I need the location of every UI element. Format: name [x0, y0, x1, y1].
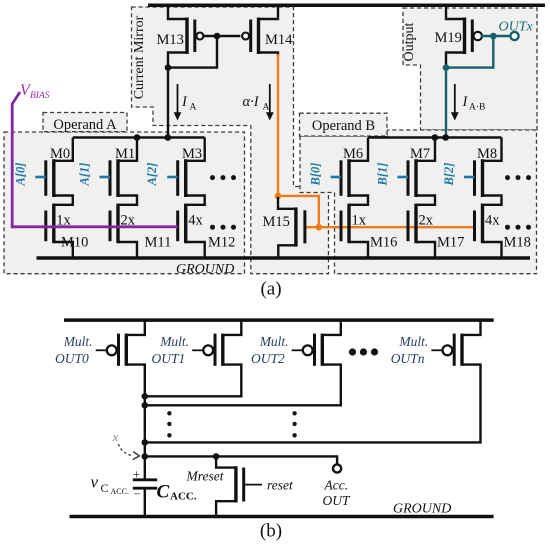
operand A drain bus wire: [73, 136, 205, 138]
svg-text:B[0]: B[0]: [309, 163, 323, 187]
svg-text:α·I: α·I: [243, 94, 260, 110]
transistor M19 channel: [463, 18, 466, 55]
svg-text:ACC.: ACC.: [111, 487, 129, 496]
label Operand B: [312, 118, 375, 134]
svg-text:M19: M19: [435, 30, 462, 46]
svg-text:Mult.: Mult.: [259, 334, 289, 349]
transistor pair M6/M16 branch (B[0], 1x): [309, 138, 398, 259]
label reset: [267, 477, 294, 492]
node: bus dot at mirror input: [165, 134, 172, 141]
vertical ellipsis right: [292, 411, 296, 437]
operand B drain bus wire: [368, 136, 502, 138]
dashed region: operand B label box: [300, 113, 388, 136]
wire: OUT1 drain to node x: [146, 365, 241, 397]
node: dot Mreset drain: [213, 453, 220, 460]
transistor M15 channel: [294, 207, 297, 246]
dashed region: current mirror + multiplier core box: [132, 7, 329, 274]
label V_BIAS: [20, 82, 50, 101]
svg-text:M11: M11: [145, 235, 172, 251]
svg-text:Output: Output: [402, 22, 417, 61]
svg-text:M12: M12: [208, 235, 235, 251]
label (b): [260, 521, 282, 542]
ground rail (fig b): [70, 515, 494, 519]
label I_A.B: [462, 94, 486, 113]
transistor M15 source wire: [278, 245, 296, 258]
node: teal drain dot: [443, 64, 450, 71]
wire: orange gate line to M16 M17 M18: [305, 226, 475, 228]
label v_C_ACC: [91, 473, 129, 497]
svg-text:M1: M1: [115, 146, 135, 162]
current arrow alpha-I_A: [266, 84, 274, 121]
transistor Mreset drain wire: [216, 456, 236, 467]
transistor M13 source wire: [168, 4, 187, 19]
transistor M19 gate bar: [471, 20, 474, 53]
svg-text:GROUND: GROUND: [393, 501, 451, 516]
wire: orange over to M15 gate column: [278, 196, 319, 227]
vertical ellipsis left: [167, 411, 171, 437]
label - polarity: [134, 487, 141, 501]
wire: OUT2 drain to node x: [146, 365, 341, 406]
svg-text:1x: 1x: [352, 212, 367, 228]
svg-text:4x: 4x: [485, 212, 500, 228]
svg-text:C: C: [101, 481, 109, 495]
svg-text:M17: M17: [437, 235, 464, 251]
label + polarity: [133, 468, 140, 482]
svg-text:OUTx: OUTx: [499, 20, 534, 35]
svg-text:GROUND: GROUND: [176, 262, 234, 277]
svg-text:M3: M3: [182, 146, 202, 162]
svg-text:M16: M16: [370, 235, 397, 251]
wire: capacitor to ground: [144, 488, 146, 516]
transistor Mult.OUT0 (fig b): [55, 321, 145, 366]
svg-text:v: v: [91, 473, 99, 492]
svg-text:Operand A: Operand A: [53, 117, 117, 133]
svg-text:OUT0: OUT0: [55, 351, 89, 366]
transistor Mreset source wire: [216, 501, 236, 516]
transistor M19 source wire: [446, 4, 465, 19]
wire: diode connection M13: [169, 36, 217, 68]
svg-text:A·B: A·B: [469, 103, 485, 113]
transistor M19 gate bubble: [474, 32, 482, 40]
node: dot OUT1 junction: [142, 393, 149, 400]
dashed region: operand A label box: [43, 113, 127, 132]
svg-text:(b): (b): [260, 521, 282, 542]
svg-text:reset: reset: [267, 477, 294, 492]
wire: OUTn drain to node x: [146, 365, 481, 443]
VDD power rail (fig a): [148, 3, 545, 7]
svg-text:Current Mirror: Current Mirror: [132, 15, 147, 99]
svg-text:Mult.: Mult.: [63, 334, 93, 349]
wire: M13 gate to M14 gate: [203, 35, 240, 37]
transistor M13 channel: [185, 18, 188, 55]
svg-text:M10: M10: [61, 235, 88, 251]
svg-text:M8: M8: [477, 146, 497, 162]
transistor M14 drain wire: [259, 53, 279, 57]
label M15: [263, 214, 290, 230]
transistor M14 gate bar: [249, 20, 252, 53]
transistor pair M1/M11 branch (A[1], 2x): [78, 138, 172, 259]
transistor M13 drain wire: [168, 53, 187, 68]
GROUND label (fig a): [176, 262, 234, 277]
dashed region: operand A box: [4, 132, 245, 274]
node: orange junction on mirror gate line: [316, 224, 323, 231]
wire: output current down to operand B: [445, 68, 447, 138]
transistor Mreset gate bar: [242, 468, 245, 502]
transistor M15 drain wire: [278, 197, 296, 209]
label Acc. OUT: [323, 478, 351, 509]
transistor M15 gate bar: [303, 210, 306, 243]
node: bus dot at M7: [432, 134, 439, 141]
svg-text:A[2]: A[2]: [145, 163, 159, 187]
svg-text:OUT1: OUT1: [152, 351, 186, 366]
label OUTx: [499, 20, 534, 35]
label I_A: [181, 94, 197, 113]
node: teal gate junction dot: [490, 33, 497, 40]
svg-text:Operand B: Operand B: [312, 118, 375, 134]
label M14: [265, 32, 293, 48]
wire: mirror input down to operand A: [167, 68, 169, 138]
svg-text:OUT: OUT: [323, 493, 351, 508]
node: dot node x: [142, 453, 149, 460]
transistor Mult.OUTn (fig b): [391, 321, 481, 366]
wire: node x output to Acc OUT: [145, 456, 337, 465]
ellipsis dots operand B upper: [505, 175, 531, 180]
ellipsis dots operand A upper: [210, 175, 236, 180]
svg-text:Acc.: Acc.: [324, 478, 349, 493]
node x label (gray): [112, 429, 119, 444]
ellipsis dots operand B lower: [505, 225, 531, 230]
transistor pair M3/M12 branch (A[2], 4x): [145, 138, 235, 259]
node: bus dot at output wire: [442, 134, 449, 141]
node: dot OUTn junction: [142, 439, 149, 446]
svg-text:+: +: [133, 468, 140, 482]
current arrow I_A.B: [451, 84, 459, 121]
svg-text:4x: 4x: [188, 212, 203, 228]
transistor Mult.OUT2 (fig b): [251, 321, 341, 366]
svg-text:A: A: [190, 103, 197, 113]
node x dashed arrow: [119, 444, 140, 460]
current arrow I_A: [174, 84, 182, 121]
wire: teal feedback down-left: [447, 36, 493, 68]
transistor M14 source wire: [259, 4, 279, 19]
svg-text:2x: 2x: [419, 212, 434, 228]
label Current Mirror: [132, 15, 147, 99]
transistor M13 gate bubble: [196, 33, 203, 40]
label Operand A: [53, 117, 117, 133]
VDD power rail (fig b): [64, 318, 494, 322]
svg-text:A[0]: A[0]: [13, 163, 27, 187]
transistor Mreset channel: [234, 466, 237, 502]
terminal Acc OUT: [333, 464, 341, 472]
ellipsis dots operand A lower: [210, 225, 236, 230]
capacitor C_ACC top plate: [133, 478, 157, 481]
svg-text:OUTn: OUTn: [391, 351, 425, 366]
dashed region: output box: [403, 8, 537, 130]
transistor pair M7/M17 branch (B[1], 2x): [376, 138, 465, 259]
svg-text:M6: M6: [343, 146, 363, 162]
terminal OUTx: [510, 32, 518, 40]
label M13: [157, 32, 184, 48]
transistor M13 gate bar: [193, 20, 196, 53]
svg-text:Mult.: Mult.: [398, 334, 428, 349]
transistor Mreset gate lead: [244, 484, 262, 486]
svg-text:Mreset: Mreset: [186, 469, 225, 484]
wire: M19 gate to OUTx (teal): [481, 35, 511, 37]
svg-text:M13: M13: [157, 32, 184, 48]
ellipsis dots between OUT2 and OUTn: [349, 348, 378, 355]
node: orange junction at M15 drain: [275, 193, 282, 200]
svg-text:(a): (a): [260, 279, 281, 300]
label Output: [402, 22, 417, 61]
label M19: [435, 30, 462, 46]
ground rail (fig a): [37, 256, 531, 260]
label (a): [260, 279, 281, 300]
transistor pair M8/M18 branch (B[2], 4x): [442, 138, 531, 259]
svg-text:ACC.: ACC.: [170, 491, 197, 503]
svg-text:B[1]: B[1]: [376, 163, 390, 187]
svg-text:−: −: [134, 487, 141, 501]
svg-text:BIAS: BIAS: [30, 91, 50, 101]
label C_ACC.: [157, 482, 197, 503]
svg-text:x: x: [112, 429, 119, 444]
label alpha-I_A: [243, 94, 270, 113]
node: M13 drain dot: [165, 64, 172, 71]
wire: OUT0 drain / accumulation column: [126, 365, 145, 480]
transistor M14 gate bubble: [242, 33, 249, 40]
dashed region: operand B box: [300, 130, 537, 274]
GROUND label (fig b): [393, 501, 451, 516]
node: gate junction dot: [214, 33, 221, 40]
svg-text:M15: M15: [263, 214, 290, 230]
transistor Mult.OUT1 (fig b): [152, 321, 242, 366]
svg-text:Mult.: Mult.: [159, 334, 189, 349]
svg-text:M18: M18: [504, 235, 531, 251]
svg-text:M7: M7: [410, 146, 430, 162]
wire: V_BIAS purple: [12, 92, 178, 227]
svg-text:M0: M0: [50, 146, 70, 162]
svg-text:M14: M14: [265, 32, 293, 48]
capacitor C_ACC bottom plate: [133, 487, 157, 490]
transistor pair M0/M10 branch (A[0], 1x): [13, 138, 88, 259]
svg-text:C: C: [157, 482, 170, 503]
transistor M19 drain wire: [446, 53, 465, 67]
svg-text:A: A: [263, 103, 270, 113]
wire: M14 drain orange vertical: [277, 54, 279, 196]
svg-text:B[2]: B[2]: [442, 163, 456, 187]
transistor M14 channel: [257, 18, 260, 55]
node: dot OUT2 junction: [142, 402, 149, 409]
node: bus dot at M1: [134, 134, 141, 141]
label Mreset: [186, 469, 225, 484]
svg-text:A[1]: A[1]: [78, 163, 92, 187]
svg-text:OUT2: OUT2: [251, 351, 285, 366]
